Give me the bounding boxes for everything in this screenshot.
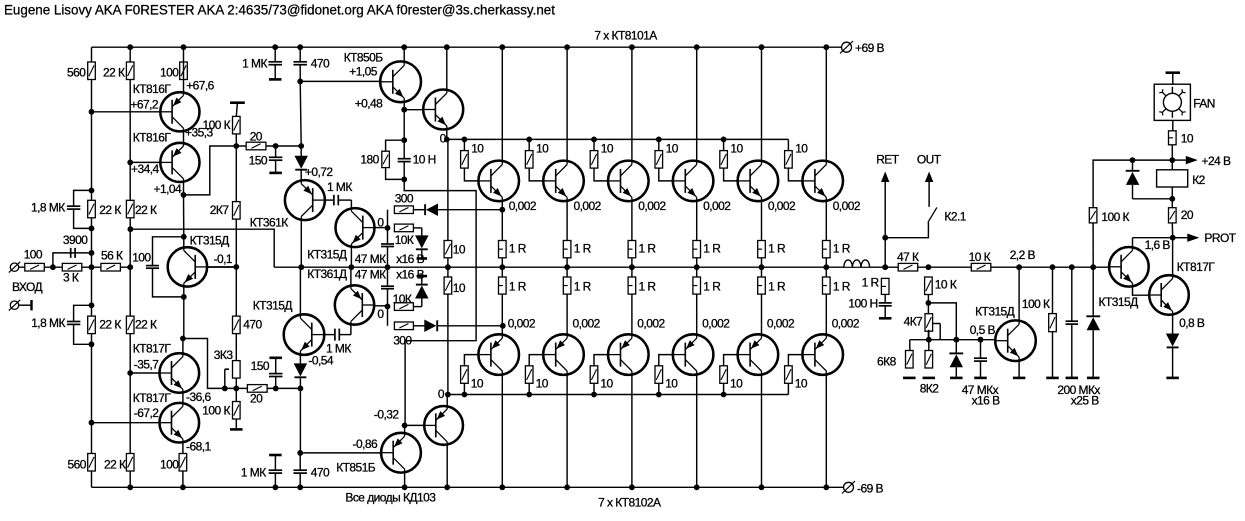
svg-text:0,002: 0,002 xyxy=(637,316,665,330)
svg-text:3 К: 3 К xyxy=(63,270,79,284)
svg-text:10: 10 xyxy=(536,376,549,390)
svg-text:+67,6: +67,6 xyxy=(186,79,214,93)
svg-text:470: 470 xyxy=(311,465,330,479)
svg-text:0,002: 0,002 xyxy=(509,199,537,213)
svg-text:10: 10 xyxy=(730,376,743,390)
svg-text:Eugene Lisovy AKA F0RESTER AKA: Eugene Lisovy AKA F0RESTER AKA 2:4635/73… xyxy=(4,3,555,18)
svg-text:10: 10 xyxy=(601,142,614,156)
svg-text:КТ315Д: КТ315Д xyxy=(975,304,1015,318)
svg-text:56 К: 56 К xyxy=(101,249,123,263)
svg-text:1 R: 1 R xyxy=(574,242,592,256)
svg-text:100: 100 xyxy=(24,248,43,262)
svg-text:10: 10 xyxy=(666,142,679,156)
svg-text:КТ315Д: КТ315Д xyxy=(190,234,230,248)
svg-text:+69 В: +69 В xyxy=(855,41,884,55)
svg-text:1,8 МК: 1,8 МК xyxy=(31,316,65,330)
svg-text:22 К: 22 К xyxy=(135,203,157,217)
svg-text:1 R: 1 R xyxy=(509,280,527,294)
svg-text:2К7: 2К7 xyxy=(210,203,230,217)
svg-text:-0,86: -0,86 xyxy=(353,437,378,451)
svg-text:RET: RET xyxy=(876,153,900,167)
svg-text:20: 20 xyxy=(250,129,263,143)
svg-text:FAN: FAN xyxy=(1193,97,1215,111)
svg-text:1 R: 1 R xyxy=(768,242,786,256)
svg-text:20: 20 xyxy=(1181,208,1194,222)
svg-text:100 К: 100 К xyxy=(202,404,230,418)
svg-text:0,5 В: 0,5 В xyxy=(970,323,996,337)
svg-text:100 К: 100 К xyxy=(203,118,231,132)
svg-text:470: 470 xyxy=(243,318,262,332)
svg-text:x16 В: x16 В xyxy=(972,394,1000,408)
svg-text:1 МК: 1 МК xyxy=(327,180,352,194)
svg-text:0,002: 0,002 xyxy=(833,199,861,213)
svg-text:КТ817Г: КТ817Г xyxy=(133,391,172,405)
svg-text:1 МК: 1 МК xyxy=(242,56,267,70)
svg-text:+24 В: +24 В xyxy=(1202,154,1231,168)
svg-text:10 Н: 10 Н xyxy=(413,152,436,166)
svg-text:x25 В: x25 В xyxy=(1071,394,1099,408)
svg-text:0: 0 xyxy=(377,307,384,321)
svg-text:10: 10 xyxy=(453,281,466,295)
svg-text:КТ315Д: КТ315Д xyxy=(1099,295,1139,309)
svg-text:8К2: 8К2 xyxy=(920,382,940,396)
svg-text:3К3: 3К3 xyxy=(214,348,234,362)
svg-text:7 x КТ8101А: 7 x КТ8101А xyxy=(594,29,657,43)
svg-text:47 МК: 47 МК xyxy=(355,268,386,282)
svg-text:1,8 МК: 1,8 МК xyxy=(31,201,65,215)
svg-text:0,002: 0,002 xyxy=(508,316,536,330)
svg-text:10: 10 xyxy=(665,376,678,390)
svg-text:4К7: 4К7 xyxy=(904,315,924,329)
svg-text:ВХОД: ВХОД xyxy=(12,280,43,294)
svg-text:+34,4: +34,4 xyxy=(131,162,159,176)
svg-text:-0,54: -0,54 xyxy=(308,354,333,368)
svg-text:-0,1: -0,1 xyxy=(214,252,233,266)
svg-text:-36,6: -36,6 xyxy=(186,390,211,404)
svg-text:10: 10 xyxy=(730,142,743,156)
svg-text:22 К: 22 К xyxy=(99,318,121,332)
svg-text:10: 10 xyxy=(795,376,808,390)
svg-text:+1,04: +1,04 xyxy=(154,182,182,196)
svg-text:+1,05: +1,05 xyxy=(349,65,377,79)
svg-text:КТ315Д: КТ315Д xyxy=(307,248,347,262)
svg-text:22 К: 22 К xyxy=(99,203,121,217)
svg-text:10: 10 xyxy=(471,376,484,390)
svg-text:0: 0 xyxy=(438,387,445,401)
svg-text:-35,7: -35,7 xyxy=(134,357,159,371)
svg-text:10К: 10К xyxy=(395,233,414,247)
svg-text:0,002: 0,002 xyxy=(702,316,730,330)
svg-text:100 К: 100 К xyxy=(1101,210,1129,224)
svg-text:10 К: 10 К xyxy=(969,250,991,264)
svg-text:150: 150 xyxy=(251,359,270,373)
svg-text:0,002: 0,002 xyxy=(573,316,601,330)
svg-text:1 R: 1 R xyxy=(639,242,657,256)
svg-text:КТ361Д: КТ361Д xyxy=(307,267,347,281)
svg-text:47 К: 47 К xyxy=(897,250,919,264)
svg-text:0,002: 0,002 xyxy=(638,199,666,213)
svg-text:0,002: 0,002 xyxy=(832,316,860,330)
svg-text:К2.1: К2.1 xyxy=(944,209,966,223)
svg-text:22 К: 22 К xyxy=(135,318,157,332)
svg-text:1 R: 1 R xyxy=(862,276,880,290)
svg-text:6К8: 6К8 xyxy=(877,355,897,369)
svg-text:PROT: PROT xyxy=(1204,231,1236,245)
svg-text:0,8 В: 0,8 В xyxy=(1179,316,1205,330)
svg-text:560: 560 xyxy=(67,65,86,79)
svg-text:OUT: OUT xyxy=(917,153,942,167)
svg-text:0,002: 0,002 xyxy=(574,199,602,213)
svg-text:КТ816Г: КТ816Г xyxy=(133,82,172,96)
svg-text:470: 470 xyxy=(311,56,330,70)
svg-text:1 R: 1 R xyxy=(768,280,786,294)
svg-text:1 R: 1 R xyxy=(833,242,851,256)
svg-text:-69 В: -69 В xyxy=(857,481,883,495)
svg-text:10: 10 xyxy=(471,142,484,156)
svg-text:100: 100 xyxy=(160,458,179,472)
svg-text:КТ851Б: КТ851Б xyxy=(336,460,376,474)
svg-text:0,002: 0,002 xyxy=(768,199,796,213)
svg-text:1 R: 1 R xyxy=(703,242,721,256)
svg-text:10: 10 xyxy=(1181,131,1194,145)
svg-text:+0,48: +0,48 xyxy=(355,96,383,110)
svg-text:К2: К2 xyxy=(1192,173,1205,187)
svg-text:1 R: 1 R xyxy=(639,280,657,294)
svg-text:22 К: 22 К xyxy=(103,65,125,79)
svg-text:0,002: 0,002 xyxy=(703,199,731,213)
svg-text:Все диоды КД103: Все диоды КД103 xyxy=(345,490,436,504)
svg-text:+0,72: +0,72 xyxy=(305,165,333,179)
svg-text:1 R: 1 R xyxy=(509,242,527,256)
svg-text:560: 560 xyxy=(68,458,87,472)
svg-text:150: 150 xyxy=(249,154,268,168)
svg-text:-68,1: -68,1 xyxy=(186,440,211,454)
svg-text:КТ816Г: КТ816Г xyxy=(133,131,172,145)
svg-text:10: 10 xyxy=(536,142,549,156)
svg-text:22 К: 22 К xyxy=(104,458,126,472)
svg-text:10 К: 10 К xyxy=(935,278,957,292)
svg-text:2,2 В: 2,2 В xyxy=(1010,248,1036,262)
svg-text:20: 20 xyxy=(250,392,263,406)
svg-text:1 R: 1 R xyxy=(833,280,851,294)
svg-text:100 К: 100 К xyxy=(1022,297,1050,311)
svg-text:-67,2: -67,2 xyxy=(134,406,159,420)
svg-text:КТ850Б: КТ850Б xyxy=(344,50,384,64)
svg-text:100: 100 xyxy=(160,65,179,79)
svg-text:180: 180 xyxy=(360,152,379,166)
svg-text:10: 10 xyxy=(795,142,808,156)
svg-text:КТ817Г: КТ817Г xyxy=(133,342,172,356)
svg-text:3900: 3900 xyxy=(63,233,88,247)
svg-text:1 R: 1 R xyxy=(574,280,592,294)
svg-text:+67,2: +67,2 xyxy=(130,97,158,111)
svg-text:10: 10 xyxy=(600,376,613,390)
svg-text:КТ817Г: КТ817Г xyxy=(1177,260,1216,274)
svg-text:1 R: 1 R xyxy=(703,280,721,294)
svg-text:КТ315Д: КТ315Д xyxy=(253,299,293,313)
svg-text:10К: 10К xyxy=(393,292,412,306)
svg-text:10: 10 xyxy=(453,243,466,257)
svg-text:x16 В: x16 В xyxy=(396,252,424,266)
svg-text:1 МК: 1 МК xyxy=(241,466,266,480)
svg-text:1,6 В: 1,6 В xyxy=(1145,238,1171,252)
svg-text:КТ361К: КТ361К xyxy=(250,215,289,229)
svg-text:100: 100 xyxy=(132,251,151,265)
svg-text:x16 В: x16 В xyxy=(396,268,424,282)
svg-text:300: 300 xyxy=(395,192,414,206)
svg-text:100 Н: 100 Н xyxy=(848,297,877,311)
svg-text:0: 0 xyxy=(440,131,447,145)
svg-text:0,002: 0,002 xyxy=(767,316,795,330)
svg-text:47 МК: 47 МК xyxy=(355,252,386,266)
svg-text:7 х КТ8102А: 7 х КТ8102А xyxy=(598,496,661,510)
svg-text:-0,32: -0,32 xyxy=(374,408,399,422)
